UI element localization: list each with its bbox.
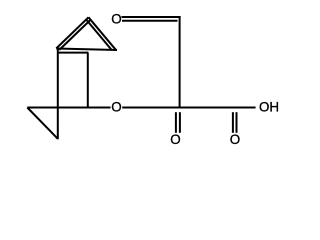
wire aldehyde vertical to C3: [179, 16, 181, 108]
wire aldehyde double bond top line: [122, 16, 181, 18]
wire C3=O double bond left line: [175, 112, 177, 133]
svg-text:O: O: [111, 12, 121, 27]
wire triangle right slant outer: [89, 17, 116, 50]
wire triangle bottom edge: [56, 49, 117, 51]
wire C4=O double bond left line: [232, 112, 234, 133]
wire cyclopropane diagonal: [27, 108, 58, 139]
wire triangle left slant inner: [59, 20, 90, 50]
wire triangle right slant inner: [86, 19, 112, 50]
svg-text:O: O: [170, 132, 180, 147]
wire aldehyde double bond lower line: [122, 20, 178, 22]
wire C4=O double bond right line: [236, 112, 238, 133]
wire C3=O double bond right line: [179, 112, 181, 133]
wire main chain left segment (cyclopropane vertex to ester O): [27, 107, 110, 109]
wire cyclobutane top edge: [58, 52, 89, 54]
wire cyclobutane right edge: [87, 53, 89, 108]
wire main chain right segment (ester O through C3, C4 to OH): [122, 107, 255, 109]
wire triangle left slant outer: [56, 17, 88, 48]
svg-text:O: O: [111, 100, 121, 115]
svg-text:OH: OH: [259, 100, 279, 115]
svg-text:O: O: [230, 132, 240, 147]
wire cyclopropane-cyclobutane shared vertical: [57, 49, 59, 140]
